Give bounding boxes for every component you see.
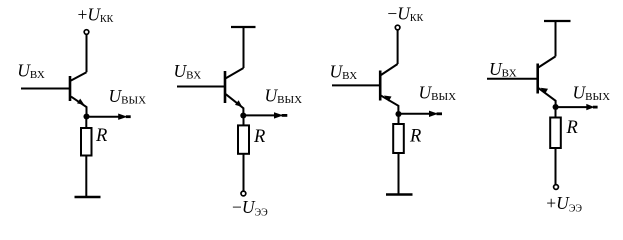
svg-text:+UЭЭ: +UЭЭ xyxy=(546,193,582,214)
arrow output xyxy=(586,104,594,110)
wire output xyxy=(556,106,588,108)
resistor R1 xyxy=(81,128,92,156)
svg-text:UВЫХ: UВЫХ xyxy=(573,83,611,104)
svg-text:−UКК: −UКК xyxy=(387,3,423,24)
wire resistor to ground xyxy=(85,156,87,198)
transistor VT4 base bar xyxy=(536,64,539,94)
svg-text:UВХ: UВХ xyxy=(174,61,202,82)
wire output nub xyxy=(593,106,598,109)
terminal +Uee xyxy=(554,185,559,190)
wire output nub xyxy=(437,112,443,115)
transistor VT1 emitter arrow xyxy=(77,99,84,105)
svg-text:R: R xyxy=(566,118,578,138)
transistor VT3 collector lead xyxy=(381,64,398,75)
transistor VT2 collector lead xyxy=(226,68,244,78)
svg-text:R: R xyxy=(95,126,107,146)
wire base input xyxy=(332,84,380,86)
svg-text:−UЭЭ: −UЭЭ xyxy=(232,197,268,218)
terminal -Ukk xyxy=(395,25,400,30)
arrow output xyxy=(118,114,127,120)
svg-text:R: R xyxy=(253,127,265,147)
ground xyxy=(386,193,413,195)
svg-text:UВХ: UВХ xyxy=(17,60,45,81)
wire base input xyxy=(177,86,224,88)
wire node to resistor xyxy=(398,114,400,124)
svg-text:UВЫХ: UВЫХ xyxy=(419,83,457,104)
transistor VT3 base bar xyxy=(379,71,382,101)
wire node to resistor xyxy=(243,116,245,126)
node emitter xyxy=(553,104,559,110)
wire resistor to terminal xyxy=(243,154,245,191)
transistor VT4 collector lead xyxy=(539,56,556,67)
ground xyxy=(75,196,101,198)
transistor VT4 emitter arrow (points to base) xyxy=(541,88,549,94)
node emitter xyxy=(83,113,89,119)
wire collector to rail xyxy=(555,21,557,56)
transistor VT2 emitter lead (NPN) xyxy=(226,94,244,115)
transistor VT3 emitter lead (PNP) xyxy=(381,96,398,114)
svg-text:UВХ: UВХ xyxy=(489,59,517,80)
wire resistor to ground xyxy=(398,153,400,195)
node emitter xyxy=(240,112,246,118)
wire base input xyxy=(487,78,537,80)
arrow output xyxy=(274,112,283,118)
terminal -Uee xyxy=(241,191,246,196)
transistor VT1 emitter lead (NPN) xyxy=(71,97,87,117)
transistor VT2 emitter arrow xyxy=(235,100,242,107)
svg-text:UВЫХ: UВЫХ xyxy=(109,86,147,107)
power rail bar top xyxy=(544,20,571,22)
resistor R4 xyxy=(550,118,561,149)
wire base input xyxy=(21,88,69,90)
wire output xyxy=(87,116,119,118)
node emitter xyxy=(395,111,401,117)
power rail bar top xyxy=(231,26,256,28)
wire resistor to terminal xyxy=(555,148,557,185)
svg-text:UВХ: UВХ xyxy=(330,62,358,83)
wire output xyxy=(244,114,275,116)
resistor R2 xyxy=(238,125,249,153)
transistor VT2 base bar xyxy=(224,71,227,103)
wire output nub xyxy=(126,115,131,118)
transistor VT1 base bar xyxy=(69,76,72,101)
transistor VT4 emitter lead (PNP) xyxy=(539,88,556,107)
wire collector to rail xyxy=(243,27,245,68)
wire output xyxy=(399,113,430,115)
wire node to resistor xyxy=(555,107,557,118)
terminal +Ukk xyxy=(84,30,89,35)
wire collector to terminal xyxy=(397,30,399,64)
transistor VT1 collector lead xyxy=(71,72,87,80)
svg-text:+UКК: +UКК xyxy=(78,4,114,25)
svg-text:UВЫХ: UВЫХ xyxy=(265,85,303,106)
transistor VT3 emitter arrow (points to base) xyxy=(384,96,392,102)
wire output nub xyxy=(282,114,288,117)
svg-text:R: R xyxy=(409,127,421,147)
resistor R3 xyxy=(393,124,404,153)
wire node to resistor xyxy=(85,117,87,129)
arrow output xyxy=(429,111,438,117)
wire collector to terminal xyxy=(86,34,88,72)
